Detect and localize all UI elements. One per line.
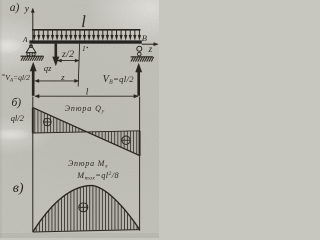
svg-text:A: A	[22, 35, 28, 44]
left extension line	[32, 97, 34, 233]
label VA=ql/2	[2, 73, 30, 84]
right extension line	[139, 97, 141, 231]
hatching negative Q area	[90, 131, 137, 154]
svg-text:z/2: z/2	[61, 49, 74, 60]
z-axis	[142, 43, 158, 46]
distributed load q on beam	[32, 30, 141, 41]
ground hatching under support A	[21, 56, 44, 61]
light smudge beside support A	[0, 38, 24, 54]
support B (roller support)	[137, 46, 142, 56]
hatching M area	[36, 186, 137, 232]
svg-text:б): б)	[12, 97, 22, 109]
svg-text:z: z	[148, 45, 153, 55]
support A (hinged support)	[26, 45, 36, 56]
reaction force VA arrow	[30, 62, 36, 96]
bottom edge shading	[0, 233, 159, 238]
section line 1-1	[78, 44, 79, 87]
svg-text:l: l	[81, 12, 86, 31]
svg-text:VA=ql/2: VA=ql/2	[5, 73, 30, 84]
shear diagram Q outline	[33, 108, 140, 156]
svg-text:1: 1	[82, 44, 86, 53]
svg-text:Эпюра Qy: Эпюра Qy	[65, 104, 105, 115]
svg-text:Эпюра Mх: Эпюра Mх	[68, 159, 108, 170]
svg-text:y: y	[24, 4, 30, 14]
svg-text:qz: qz	[44, 63, 52, 73]
svg-text:l: l	[86, 88, 89, 98]
svg-text:z: z	[60, 72, 65, 82]
svg-text:а): а)	[10, 2, 20, 14]
svg-text:ql/2: ql/2	[11, 113, 25, 123]
paper grain noise	[0, 0, 159, 238]
svg-text:В: В	[142, 33, 147, 43]
resultant load qz arrow	[53, 44, 60, 66]
svg-text:в): в)	[13, 181, 24, 196]
hatching positive Q area	[35, 109, 85, 133]
paper tone vignette	[0, 0, 159, 238]
label 1 (section, below beam)	[82, 44, 88, 53]
dimension l	[35, 94, 139, 98]
reaction force VB arrow	[136, 63, 142, 96]
dimension z	[35, 79, 79, 82]
svg-text:Mmax=ql2/8: Mmax=ql2/8	[76, 171, 119, 182]
y-axis	[31, 8, 34, 41]
plus sign in Q diagram	[44, 118, 52, 126]
moment diagram M parabola and baseline	[33, 186, 140, 232]
light smudge left margin	[0, 129, 31, 141]
svg-text:VB=ql/2: VB=ql/2	[103, 74, 135, 86]
ground hatching under support B	[131, 57, 154, 62]
minus sign in Q diagram	[122, 136, 130, 144]
plus sign in M diagram	[79, 203, 88, 212]
dimension z/2 arrows	[57, 59, 79, 62]
beam AB	[29, 40, 141, 43]
